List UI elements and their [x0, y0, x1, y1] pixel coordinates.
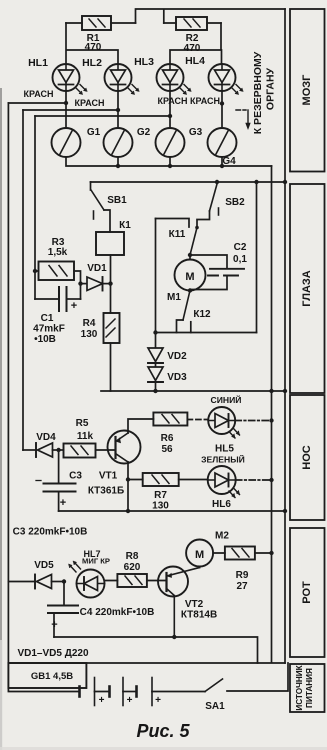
wire diode bottom rail — [101, 390, 285, 392]
wire eyes bottom rail — [155, 332, 257, 334]
wire nose bottom rail — [59, 510, 285, 512]
svg-text:R9: R9 — [236, 570, 249, 581]
svg-text:470: 470 — [85, 42, 102, 53]
LED HL3 — [157, 64, 192, 95]
svg-text:470: 470 — [184, 43, 201, 54]
svg-text:27: 27 — [236, 581, 248, 592]
svg-text:HL3: HL3 — [134, 56, 154, 68]
page artifacts — [0, 88, 2, 640]
svg-text:КРАСН: КРАСН — [190, 96, 220, 106]
wire mouth bottom rail — [54, 637, 258, 663]
node R3 bus3 — [33, 269, 37, 273]
svg-text:1,5k: 1,5k — [48, 247, 68, 258]
node K11 branch bottom — [153, 330, 157, 334]
svg-text:130: 130 — [152, 501, 169, 512]
svg-text:+: + — [127, 695, 133, 706]
node VD1 cathode K1 R4 — [108, 281, 112, 285]
svg-text:VT2: VT2 — [185, 599, 204, 610]
wire battery top rail — [8, 662, 285, 664]
wire right branch of eyes block — [256, 182, 258, 333]
wire G cathode rail — [66, 157, 272, 166]
wire K11 branch vertical — [155, 219, 157, 333]
svg-text:КРАСН: КРАСН — [75, 98, 105, 108]
svg-text:К12: К12 — [193, 309, 211, 320]
G cell G2 — [104, 128, 133, 157]
wire bus3 vertical — [34, 116, 36, 299]
svg-text:М: М — [195, 549, 204, 561]
svg-text:VD1–VD5 Д220: VD1–VD5 Д220 — [17, 648, 88, 659]
svg-text:КТ814В: КТ814В — [181, 610, 217, 621]
section box brain — [290, 9, 325, 172]
svg-text:МОЗГ: МОЗГ — [301, 74, 313, 106]
svg-text:SA1: SA1 — [205, 701, 225, 712]
diode VD5 — [8, 575, 64, 589]
svg-text:ИСТОЧНИК: ИСТОЧНИК — [295, 664, 304, 710]
section box eyes — [290, 184, 325, 393]
wire bus1 horizontal — [8, 102, 66, 104]
svg-text:G2: G2 — [137, 127, 151, 138]
motor M1 — [175, 255, 206, 291]
resistor R3 — [35, 262, 81, 300]
node collector rail — [126, 509, 130, 513]
diode VD4 — [23, 443, 64, 457]
wire to reserve organ with arrow — [236, 110, 251, 130]
svg-text:КРАСН: КРАСН — [24, 89, 54, 99]
relay contact K12 — [177, 291, 191, 333]
svg-text:РОТ: РОТ — [301, 581, 313, 604]
resistor R2 — [164, 17, 221, 30]
node rail right bus — [283, 389, 287, 393]
LED HL5 — [208, 407, 239, 438]
svg-text:R7: R7 — [154, 490, 167, 501]
node VD1 anode — [78, 281, 82, 285]
svg-text:ГЛАЗА: ГЛАЗА — [301, 270, 313, 307]
node M1 top — [188, 253, 192, 257]
svg-text:HL5: HL5 — [215, 444, 234, 455]
node right branch tap — [254, 180, 258, 184]
node HL5 right — [269, 418, 273, 422]
svg-text:С3: С3 — [69, 471, 82, 482]
svg-text:+: + — [71, 300, 77, 312]
svg-text:HL6: HL6 — [212, 499, 231, 510]
wire HL3-HL4 anode rail — [170, 23, 222, 64]
node VD4 R5 C3 — [56, 448, 60, 452]
node HL1 tap — [64, 101, 68, 105]
svg-text:11k: 11k — [77, 431, 94, 442]
svg-text:47mkF: 47mkF — [33, 324, 65, 335]
svg-text:КРАСН: КРАСН — [158, 96, 188, 106]
svg-text:R6: R6 — [161, 433, 174, 444]
svg-text:VD3: VD3 — [167, 372, 187, 383]
node VD3 bottom — [153, 389, 157, 393]
svg-text:VD4: VD4 — [36, 432, 56, 443]
diode VD3 — [148, 363, 163, 391]
switch SA1 — [205, 663, 288, 692]
battery cell 1 — [80, 678, 110, 706]
resistor R8 — [105, 574, 167, 587]
svg-text:SB2: SB2 — [225, 197, 245, 208]
wire bus1 vertical — [7, 103, 9, 663]
svg-text:+: + — [60, 497, 66, 509]
svg-text:С3 220mkF•10В: С3 220mkF•10В — [13, 527, 88, 538]
svg-text:R4: R4 — [83, 318, 96, 329]
wire eyes section top rail — [91, 181, 286, 183]
section box power source — [290, 664, 325, 712]
relay coil K1 — [96, 232, 124, 284]
diode VD2 — [148, 348, 163, 363]
wire top supply bus — [136, 9, 286, 23]
capacitor C4 — [48, 582, 78, 638]
svg-text:К1: К1 — [119, 220, 131, 231]
LED HL7 — [69, 561, 105, 598]
node HL2 tap — [116, 108, 120, 112]
svg-text:ПИТАНИЯ: ПИТАНИЯ — [305, 668, 314, 708]
motor M2 — [186, 540, 213, 568]
section box nose — [290, 395, 325, 520]
battery GB1 label box — [8, 663, 86, 688]
svg-text:R5: R5 — [76, 418, 89, 429]
svg-text:G4: G4 — [222, 156, 236, 167]
capacitor C2 — [190, 255, 244, 290]
battery cell 3 — [137, 678, 206, 706]
node G4 rail — [220, 164, 224, 168]
wire HL1-HL2 anode rail — [66, 23, 118, 64]
svg-text:130: 130 — [81, 329, 98, 340]
resistor R9 — [213, 547, 274, 560]
node HL3 tap — [168, 114, 172, 118]
svg-text:HL2: HL2 — [82, 57, 102, 69]
LED HL6 — [208, 466, 240, 498]
capacitor C3 — [36, 450, 76, 511]
button SB1 — [91, 182, 111, 232]
node VT2 collector rail — [172, 635, 176, 639]
diode VD1 — [81, 277, 111, 291]
wire bus2 vertical — [22, 110, 24, 450]
LED HL4 — [209, 64, 244, 95]
node G3 rail — [168, 164, 172, 168]
svg-text:•10В: •10В — [34, 334, 56, 345]
node rail right branch — [269, 389, 273, 393]
svg-text:К РЕЗЕРВНОМУ: К РЕЗЕРВНОМУ — [252, 51, 264, 134]
wire HL cathodes to G cells — [66, 91, 222, 128]
svg-text:+: + — [155, 695, 161, 706]
node HL6 right — [269, 478, 273, 482]
LED HL2 — [105, 64, 140, 95]
wire HL5 to right branch — [235, 420, 271, 422]
svg-text:ОРГАНУ: ОРГАНУ — [265, 67, 277, 110]
resistor R4 — [104, 284, 120, 391]
node M1 bottom — [188, 288, 192, 292]
svg-text:М1: М1 — [167, 292, 181, 303]
svg-text:G3: G3 — [189, 127, 203, 138]
svg-text:М2: М2 — [215, 531, 229, 542]
svg-text:ЗЕЛЕНЫЙ: ЗЕЛЕНЫЙ — [201, 454, 245, 465]
svg-text:+: + — [99, 695, 105, 706]
svg-text:0,1: 0,1 — [233, 254, 247, 265]
battery cell 2 — [110, 678, 137, 706]
svg-text:G1: G1 — [87, 127, 101, 138]
transistor VT2 — [158, 567, 200, 638]
section box mouth — [290, 528, 325, 657]
capacitor C1 — [35, 287, 81, 311]
node HL4 tap — [220, 101, 224, 105]
relay contact K11 — [156, 219, 199, 256]
G cell G1 — [52, 128, 81, 157]
svg-text:К11: К11 — [169, 229, 186, 240]
svg-text:КТ361Б: КТ361Б — [88, 486, 124, 497]
resistor R5 — [64, 444, 116, 458]
G cell G4 — [208, 128, 237, 157]
svg-text:GВ1 4,5В: GВ1 4,5В — [31, 671, 73, 682]
svg-text:HL1: HL1 — [28, 57, 48, 69]
svg-text:+: + — [51, 619, 57, 631]
LED HL1 — [53, 64, 88, 95]
node G2 rail — [116, 164, 120, 168]
svg-text:620: 620 — [124, 562, 141, 573]
svg-text:МИГ КР: МИГ КР — [82, 557, 110, 566]
svg-text:СИНИЙ: СИНИЙ — [211, 394, 242, 405]
svg-text:М: М — [185, 271, 194, 283]
wire VD2 feed — [155, 333, 157, 349]
node nose rail right bus — [283, 509, 287, 513]
svg-text:Рис. 5: Рис. 5 — [136, 721, 190, 741]
svg-text:VT1: VT1 — [99, 471, 118, 482]
node SB2 tap — [215, 180, 219, 184]
node VT1 collector R7 tap — [126, 477, 130, 481]
resistor R7 — [128, 473, 208, 486]
G cell G3 — [156, 128, 185, 157]
wire HL6 to right branch — [236, 479, 272, 481]
svg-text:HL4: HL4 — [185, 55, 205, 67]
resistor R1 — [66, 16, 136, 30]
svg-text:VD1: VD1 — [87, 263, 107, 274]
wire battery negative lead — [8, 688, 79, 692]
wire bus3 horizontal — [35, 115, 170, 117]
svg-text:VD5: VD5 — [34, 560, 54, 571]
svg-text:НОС: НОС — [301, 445, 313, 470]
svg-text:С2: С2 — [234, 242, 247, 253]
svg-text:R8: R8 — [126, 551, 139, 562]
node VD5 HL7 C4 — [62, 579, 66, 583]
svg-text:SB1: SB1 — [107, 195, 127, 206]
svg-text:VD2: VD2 — [167, 351, 187, 362]
svg-text:56: 56 — [161, 444, 173, 455]
wire right supply bus — [284, 9, 286, 663]
svg-text:С1: С1 — [41, 313, 54, 324]
button SB2 — [197, 184, 219, 228]
node rail to right bus — [283, 180, 287, 184]
wire bus2 horizontal — [23, 109, 118, 111]
svg-text:С4 220mkF•10В: С4 220mkF•10В — [80, 607, 155, 618]
wire right branch down from G rail — [271, 166, 273, 663]
resistor R6 — [153, 413, 207, 426]
transistor VT1 — [108, 419, 154, 511]
